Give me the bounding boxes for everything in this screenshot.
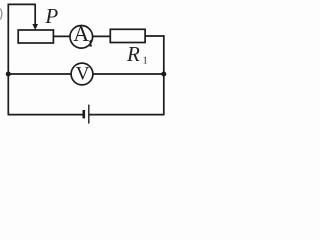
ammeter A1 circle (70, 26, 93, 49)
svg-text:P: P (44, 4, 58, 28)
rheostat P body (18, 30, 53, 43)
wire left vertical (7, 4, 9, 115)
wire right vertical (163, 35, 165, 115)
wire R1 to right corner (145, 35, 164, 37)
node junction right (161, 72, 166, 77)
wire voltmeter to right (93, 73, 164, 75)
svg-text:R: R (126, 42, 140, 66)
svg-text:1: 1 (143, 56, 148, 67)
battery short thick plate (83, 110, 86, 118)
rheostat P slider arrowhead (32, 24, 38, 30)
node junction left (6, 72, 11, 77)
wire middle left to voltmeter (8, 73, 71, 75)
svg-text:V: V (76, 64, 90, 85)
wire battery to bottom right (89, 114, 164, 116)
svg-text:A: A (73, 21, 89, 46)
wire ammeter to R1 (93, 35, 111, 37)
voltmeter V circle (71, 63, 93, 85)
resistor R1 body (110, 29, 145, 42)
battery long thin plate (88, 105, 90, 124)
wire arrow-drop vertical (34, 4, 36, 25)
ammeter subscript 1 (89, 41, 92, 46)
wire rheostat to ammeter (53, 35, 70, 37)
wire bottom left to battery (8, 114, 83, 116)
wire top horizontal (8, 3, 36, 5)
